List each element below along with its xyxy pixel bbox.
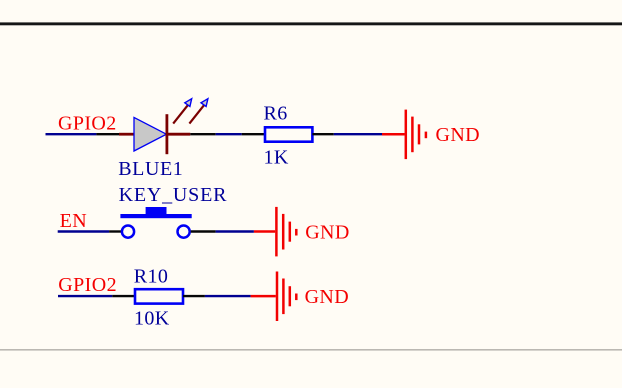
LED BLUE1 triangle <box>134 117 166 151</box>
resistor R6 pin 1 (black) <box>242 133 265 135</box>
svg-text:GND: GND <box>436 124 481 146</box>
svg-text:KEY_USER: KEY_USER <box>119 184 228 206</box>
svg-text:R6: R6 <box>264 102 288 124</box>
LED emission arrow 1 shaft <box>173 104 188 123</box>
power port GND (row 1) <box>382 110 426 160</box>
switch S pin 2 (black) <box>191 230 216 232</box>
LED cathode bar <box>165 114 168 154</box>
LED emission arrow 1 head <box>185 99 192 107</box>
switch KEY_USER actuator button <box>146 207 167 214</box>
svg-text:10K: 10K <box>134 307 170 329</box>
power port GND (row 3) <box>251 272 297 322</box>
wire (LED to R6, blue) <box>216 133 242 135</box>
LED emission arrow 2 head <box>201 99 208 107</box>
resistor R6 pin 2 (black) <box>312 133 333 135</box>
svg-text:1K: 1K <box>264 146 289 168</box>
power port GND (row 2) <box>254 207 296 257</box>
resistor R10 pin 1 (black) <box>112 295 135 297</box>
sheet top border line <box>0 22 622 25</box>
wire (switch to GND, blue) <box>216 230 254 232</box>
svg-text:EN: EN <box>60 210 87 232</box>
switch KEY_USER contact circle left <box>122 226 134 238</box>
LED emission arrow 2 shaft <box>189 104 204 123</box>
switch S pin 1 (black) <box>109 230 121 232</box>
svg-text:GPIO2: GPIO2 <box>58 112 117 134</box>
LED anode lead (maroon) <box>119 133 135 136</box>
wire (GPIO2 to R10, blue) <box>58 295 112 297</box>
wire (EN to switch, blue) <box>58 230 109 232</box>
LED D pin 1 (black) <box>96 133 119 135</box>
switch KEY_USER contact circle right <box>178 226 190 238</box>
resistor R10 pin 2 (black) <box>183 295 205 297</box>
sheet bottom border line <box>0 349 622 351</box>
svg-text:GND: GND <box>305 286 350 308</box>
svg-text:BLUE1: BLUE1 <box>118 158 183 180</box>
wire (R10 to GND, blue) <box>205 295 251 297</box>
LED cathode lead (maroon) <box>167 133 190 136</box>
wire (GPIO2 to LED, blue) <box>46 133 97 135</box>
svg-text:GND: GND <box>305 221 350 243</box>
LED pin 2 (black) <box>190 133 215 135</box>
resistor R10 body <box>135 289 183 303</box>
svg-text:R10: R10 <box>134 265 169 287</box>
svg-text:GPIO2: GPIO2 <box>58 274 117 296</box>
resistor R6 body <box>265 127 312 141</box>
switch KEY_USER actuator bar <box>120 214 191 218</box>
wire (R6 to GND, blue) <box>334 133 382 135</box>
